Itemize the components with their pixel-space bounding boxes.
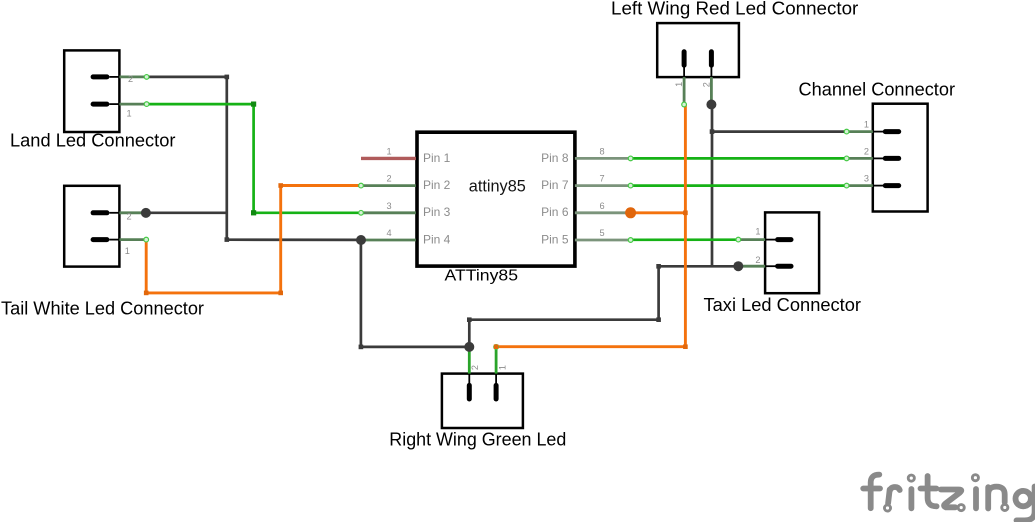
svg-text:Pin 1: Pin 1 — [423, 151, 451, 165]
svg-text:1: 1 — [498, 365, 508, 370]
svg-text:Taxi Led Connector: Taxi Led Connector — [704, 294, 862, 315]
svg-text:1: 1 — [755, 227, 760, 237]
svg-text:Channel Connector: Channel Connector — [799, 79, 956, 100]
logo letter t — [928, 476, 937, 506]
svg-text:2: 2 — [386, 174, 391, 184]
wire red IC pin1 stub — [361, 157, 416, 160]
svg-text:1: 1 — [127, 109, 132, 119]
terminal IC pin7 — [628, 183, 633, 188]
terminal Right Wing pin1 — [494, 345, 499, 350]
junction Right Wing pin2 — [464, 342, 474, 352]
wire green IC pin7 to Channel pin3 — [631, 184, 847, 187]
bendpoint orange corner 6 — [494, 344, 499, 349]
connector J3 Left Wing Red Led Connector — [657, 23, 739, 104]
connector J2 Tail White Led Connector — [64, 186, 146, 267]
svg-text:2: 2 — [701, 82, 711, 87]
junction Taxi pin2 — [733, 261, 743, 271]
wire black Left Wing pin2 down — [711, 105, 714, 267]
svg-text:ATTiny85: ATTiny85 — [445, 268, 519, 285]
wire orange Left Wing pin1 down — [684, 105, 687, 347]
wire black vertical up to Taxi row — [657, 266, 660, 319]
logo letter n — [988, 487, 1005, 509]
svg-text:Right Wing Green Led: Right Wing Green Led — [389, 429, 566, 450]
svg-text:1: 1 — [125, 246, 130, 256]
terminal Channel pin1 — [844, 129, 849, 134]
terminal Channel pin2 — [844, 156, 849, 161]
wire black branch to Channel pin1 — [712, 130, 847, 133]
junction Tail pin2 — [141, 208, 151, 218]
bendpoint dark corner 5 — [656, 317, 661, 322]
wire green IC pin8 to Channel pin2 — [631, 157, 847, 160]
wire green IC pin5 to Taxi pin1 — [631, 238, 739, 241]
svg-text:2: 2 — [864, 147, 869, 157]
wire black Land pin2 to corner — [147, 76, 227, 79]
wire black to Taxi pin2 — [659, 265, 739, 268]
terminal Land pin2 — [144, 75, 149, 80]
svg-text:2: 2 — [470, 365, 480, 370]
bendpoint dark corner 1 — [225, 75, 230, 80]
connector J6 Right Wing Green Led — [442, 347, 523, 428]
junction Left Wing pin2 — [706, 100, 716, 110]
svg-text:5: 5 — [599, 228, 604, 238]
bendpoint green corner 1 — [251, 102, 256, 107]
wire black corner to IC pin4 — [227, 238, 361, 241]
svg-text:4: 4 — [386, 228, 391, 238]
svg-text:Tail White Led Connector: Tail White Led Connector — [1, 298, 204, 319]
logo letter z — [941, 490, 961, 508]
bendpoint dark corner 6 — [656, 264, 661, 269]
svg-text:7: 7 — [599, 174, 604, 184]
bendpoint orange corner 2 — [278, 291, 283, 296]
svg-text:Pin 7: Pin 7 — [541, 178, 569, 192]
logo letter i — [973, 489, 979, 508]
logo letter i — [909, 489, 915, 508]
svg-text:3: 3 — [864, 174, 869, 184]
terminal Tail pin1 — [144, 237, 149, 242]
wire black Tail pin2 to vertical — [146, 211, 227, 214]
svg-text:1: 1 — [864, 120, 869, 130]
svg-text:Pin 5: Pin 5 — [541, 232, 569, 246]
terminal IC pin3 — [359, 210, 364, 215]
connector J4 Channel Connector — [847, 104, 928, 212]
logo letter r — [888, 487, 900, 503]
wire black Right Wing pin2 up — [468, 320, 471, 347]
terminal Left Wing pin1 — [682, 102, 687, 107]
svg-text:1: 1 — [386, 146, 391, 156]
bendpoint orange corner 4 — [683, 211, 688, 216]
bendpoint orange corner 3 — [278, 183, 283, 188]
svg-text:Pin 4: Pin 4 — [423, 232, 451, 246]
svg-text:Pin 6: Pin 6 — [541, 205, 569, 219]
bendpoint orange corner 5 — [683, 344, 688, 349]
svg-text:Pin 2: Pin 2 — [423, 178, 451, 192]
svg-text:attiny85: attiny85 — [469, 177, 526, 196]
wire black vertical corner down — [225, 77, 228, 240]
svg-text:2: 2 — [755, 255, 760, 265]
terminal Taxi pin1 — [736, 237, 741, 242]
bendpoint dark corner 2 — [225, 237, 230, 242]
terminal IC pin2 — [359, 183, 364, 188]
svg-text:Left Wing Red Led Connector: Left Wing Red Led Connector — [611, 0, 858, 19]
wire black to Right Wing pin2 — [361, 346, 469, 349]
logo letter g — [1016, 491, 1031, 506]
junction IC pin4 — [356, 235, 366, 245]
svg-text:Pin 8: Pin 8 — [541, 151, 569, 165]
bendpoint orange corner 1 — [144, 291, 149, 296]
terminal IC pin5 — [628, 238, 633, 243]
bendpoint green corner 2 — [251, 210, 256, 215]
svg-text:Pin 3: Pin 3 — [423, 205, 451, 219]
fritzing logo — [863, 475, 1034, 521]
svg-text:Land Led Connector: Land Led Connector — [10, 130, 176, 151]
terminal Channel pin3 — [844, 183, 849, 188]
svg-text:6: 6 — [599, 201, 604, 211]
wire orange branch to IC pin6 — [631, 211, 686, 214]
bendpoint dark corner 7 — [710, 129, 715, 134]
bendpoint dark corner 3 — [359, 345, 364, 350]
IC U1 attiny85 — [361, 132, 631, 266]
wire black IC pin4 down — [360, 240, 363, 347]
logo letter f — [871, 475, 880, 509]
svg-text:2: 2 — [128, 74, 133, 84]
junction IC pin6 orange — [625, 207, 636, 218]
wire orange bottom to Right Wing pin1 — [496, 345, 685, 348]
connector J1 Land Led Connector — [64, 50, 146, 132]
wire black horizontal mid — [469, 318, 658, 321]
wire orange Tail pin1 to IC pin2 — [146, 186, 361, 293]
connector J5 Taxi Led Connector — [738, 212, 819, 293]
terminal IC pin8 — [628, 156, 633, 161]
bendpoint dark corner 4 — [467, 317, 472, 322]
svg-text:1: 1 — [674, 82, 684, 87]
wire green Land pin1 to IC pin3 — [147, 104, 361, 213]
svg-text:8: 8 — [599, 146, 604, 156]
svg-text:3: 3 — [386, 201, 391, 211]
terminal Land pin1 — [144, 102, 149, 107]
svg-text:2: 2 — [127, 212, 132, 222]
